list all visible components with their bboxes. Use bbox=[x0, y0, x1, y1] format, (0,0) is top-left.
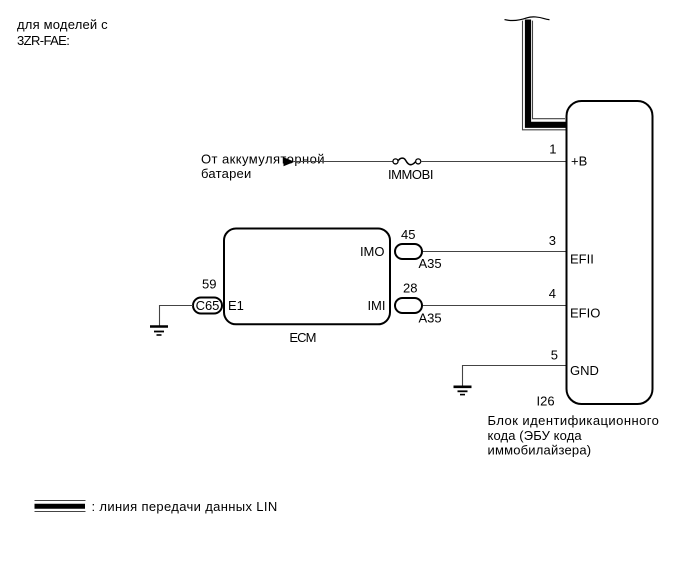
svg-text:EFII: EFII bbox=[570, 252, 594, 267]
ground (I26 GND) bbox=[454, 387, 472, 395]
svg-text:+B: +B bbox=[571, 154, 587, 169]
LIN bus: thick line bbox=[528, 20, 566, 125]
svg-text:A35: A35 bbox=[419, 256, 442, 271]
LIN bus: inner thin line bbox=[533, 21, 566, 119]
wire: GND to ground bbox=[463, 366, 566, 386]
svg-text:: линия передачи данных LIN: : линия передачи данных LIN bbox=[92, 499, 278, 514]
svg-text:IMMOBI: IMMOBI bbox=[388, 167, 433, 182]
svg-text:C65: C65 bbox=[196, 298, 220, 313]
svg-text:A35: A35 bbox=[419, 311, 442, 326]
svg-text:Блок идентификационного: Блок идентификационного bbox=[488, 413, 660, 428]
svg-text:иммобилайзера): иммобилайзера) bbox=[488, 443, 592, 458]
wire: battery feed to fusible link bbox=[294, 161, 393, 163]
svg-text:45: 45 bbox=[401, 227, 415, 242]
connector oval A35 pin 28 (IMI) bbox=[395, 281, 442, 326]
label: from battery bbox=[201, 152, 325, 181]
svg-text:EFIO: EFIO bbox=[570, 306, 600, 321]
svg-text:3ZR-FAE:: 3ZR-FAE: bbox=[17, 33, 69, 48]
svg-text:для моделей с: для моделей с bbox=[17, 17, 108, 32]
svg-text:батареи: батареи bbox=[201, 166, 252, 181]
svg-text:кода (ЭБУ кода: кода (ЭБУ кода bbox=[488, 428, 583, 443]
connector oval A35 pin 45 (IMO) bbox=[395, 227, 442, 271]
ECM box bbox=[224, 229, 390, 325]
svg-text:3: 3 bbox=[549, 233, 556, 248]
wire: IMO to EFII bbox=[423, 251, 566, 253]
svg-text:59: 59 bbox=[202, 277, 216, 292]
svg-text:4: 4 bbox=[549, 286, 556, 301]
ground (ECM E1) bbox=[150, 327, 168, 336]
svg-text:IMI: IMI bbox=[367, 298, 385, 313]
ID code ECU box I26 bbox=[567, 101, 653, 404]
note: model applicability bbox=[17, 17, 108, 48]
svg-text:IMO: IMO bbox=[360, 244, 385, 259]
caption: ID code ECU bbox=[488, 413, 660, 458]
arrow: from battery bbox=[284, 157, 295, 166]
wire: E1 to ground bbox=[160, 306, 194, 326]
legend: LIN bus symbol bbox=[35, 501, 86, 512]
svg-text:ECM: ECM bbox=[289, 330, 315, 345]
connector oval C65 pin 59 (E1) bbox=[193, 277, 222, 314]
fusible link IMMOBI bbox=[388, 158, 433, 182]
LIN bus: outer thin line bbox=[523, 21, 567, 130]
LIN bus: break squiggle at top bbox=[505, 17, 550, 21]
wire: IMI to EFIO bbox=[423, 305, 566, 307]
svg-text:1: 1 bbox=[549, 142, 556, 157]
svg-text:E1: E1 bbox=[228, 298, 244, 313]
svg-text:28: 28 bbox=[403, 281, 417, 296]
svg-text:От аккумуляторной: От аккумуляторной bbox=[201, 152, 325, 167]
wire: fusible link to pin 1 +B bbox=[421, 161, 566, 163]
svg-text:GND: GND bbox=[570, 363, 599, 378]
svg-text:5: 5 bbox=[551, 348, 558, 363]
svg-text:I26: I26 bbox=[537, 394, 555, 409]
